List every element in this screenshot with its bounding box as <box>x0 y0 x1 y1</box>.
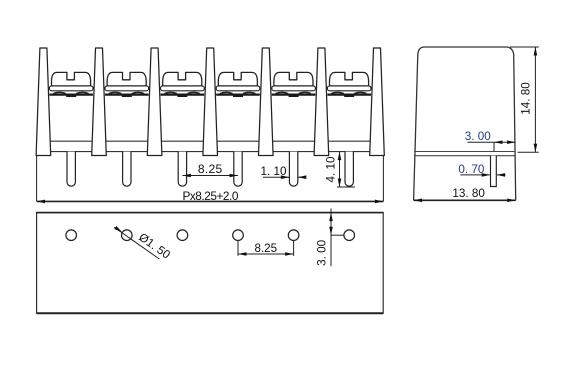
dimension 4.10 pin length front view <box>339 152 341 187</box>
side view seating plane double lines <box>414 151 515 153</box>
side view pin <box>491 156 497 187</box>
screw assembly 3: clamp dark base <box>161 93 205 95</box>
dimension 13.80 side view width / bottom line <box>414 199 516 201</box>
screw 5 clamp wavy bumps <box>276 92 289 93</box>
screw 6 head with slot <box>329 72 368 86</box>
screw 2 clamp wavy bumps <box>109 92 122 93</box>
screw 3 washer plate <box>161 86 205 91</box>
screw 6 clamp wavy bumps <box>331 92 344 93</box>
screw assembly 4: clamp dark base <box>216 93 260 95</box>
dimension 3.00 side view pin position <box>468 141 516 143</box>
hole 4 bottom view <box>233 230 244 241</box>
hole 3 bottom view <box>177 230 188 241</box>
barrier wall 3 front view <box>147 48 162 156</box>
screw 6 washer plate <box>327 86 371 91</box>
screw 2 head with slot <box>107 72 146 86</box>
front view base top line <box>51 151 370 153</box>
screw assembly 5: clamp dark base <box>272 93 316 95</box>
screw 3 clamp wavy bumps <box>164 92 177 93</box>
barrier wall 5 front view <box>259 48 274 156</box>
screw assembly 6: clamp dark base <box>327 93 371 95</box>
hole 2 bottom view <box>122 230 133 241</box>
screw 3 head with slot <box>163 72 202 86</box>
screw 5 washer plate <box>272 86 316 91</box>
front view body outline <box>37 140 384 201</box>
screw 1 head with slot <box>51 72 90 86</box>
svg-text:4. 10: 4. 10 <box>325 156 338 182</box>
pin 6 front view <box>345 152 353 187</box>
side view body outline <box>414 47 516 200</box>
screw assembly 1: clamp dark base <box>49 93 93 95</box>
screw assembly 2: clamp dark base <box>105 93 149 95</box>
bottom view rectangle <box>37 213 384 314</box>
dimension Px8.25+2.0 overall width / front view bottom line <box>37 200 384 202</box>
screw 2 washer plate <box>105 86 149 91</box>
svg-text:0. 70: 0. 70 <box>458 163 484 176</box>
screw 4 clamp wavy bumps <box>220 92 233 93</box>
pin 5 front view <box>289 152 297 187</box>
hole 6 bottom view <box>344 230 355 241</box>
hole 1 bottom view <box>66 230 77 241</box>
screw 1 clamp wavy bumps <box>53 92 66 93</box>
dimension 3.00 hole offset bottom view <box>330 209 332 267</box>
svg-text:8.25: 8.25 <box>255 242 278 255</box>
hole 5 bottom view <box>288 230 299 241</box>
pin 4 front view <box>234 152 242 187</box>
dimension 8.25 pin pitch front view <box>182 175 238 177</box>
dimension leader Ø1.50 hole diameter <box>114 227 159 259</box>
pin 1 front view <box>67 152 75 187</box>
barrier wall 7 front view <box>370 48 385 156</box>
screw 4 washer plate <box>216 86 260 91</box>
barrier wall 4 front view <box>203 48 218 156</box>
screw 4 head with slot <box>218 72 257 86</box>
dimension 0.70 side view pin thickness <box>460 174 490 176</box>
dimension 14.80 side view height <box>510 46 539 48</box>
svg-text:14. 80: 14. 80 <box>520 82 533 115</box>
barrier wall 2 front view <box>92 48 107 156</box>
pin 2 front view <box>123 152 131 187</box>
barrier wall 1 front view <box>36 48 51 156</box>
svg-text:1. 10: 1. 10 <box>261 165 287 178</box>
screw 1 washer plate <box>49 86 93 91</box>
dimension 8.25 hole pitch bottom view <box>237 241 239 256</box>
svg-text:3. 00: 3. 00 <box>315 239 328 265</box>
svg-text:Px8.25+2.0: Px8.25+2.0 <box>182 189 238 203</box>
dimension 1.10 pin width front view <box>263 176 289 178</box>
svg-text:8.25: 8.25 <box>198 162 223 176</box>
pin 3 front view <box>178 152 186 187</box>
barrier wall 6 front view <box>314 48 329 156</box>
front view deck line <box>50 140 370 142</box>
svg-text:13. 80: 13. 80 <box>452 187 485 200</box>
svg-text:3. 00: 3. 00 <box>465 130 491 143</box>
screw 5 head with slot <box>274 72 313 86</box>
